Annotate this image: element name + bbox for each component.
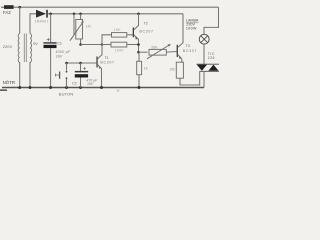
pot wiper feed — [73, 14, 75, 35]
wire: lamp to triac — [203, 44, 205, 64]
svg-text:T2: T2 — [144, 22, 148, 26]
fuse FA — [4, 5, 14, 9]
wire: 1K top lead — [138, 52, 140, 61]
svg-text:220V: 220V — [3, 44, 13, 49]
node: primary bottom — [18, 86, 21, 89]
node: button bottom — [65, 86, 68, 89]
node: R2/T2 emitter junction — [137, 43, 140, 46]
svg-text:BC307: BC307 — [100, 61, 114, 65]
svg-text:BC307: BC307 — [139, 30, 153, 34]
capacitor C2 — [80, 63, 82, 71]
resistor R3 1K body — [137, 61, 142, 74]
wire: pot bottom to resistor ladder — [81, 44, 102, 46]
capacitor C1 plates — [43, 42, 56, 43]
node: 1K bottom — [138, 86, 141, 89]
wire: base bus button/C2 to T1 — [67, 62, 97, 64]
node: ladder/T1 collector junction — [101, 43, 104, 46]
capacitor C2 plates — [75, 71, 88, 73]
transistor T2 BC307 — [133, 28, 134, 38]
56K wiper arrow — [147, 45, 170, 59]
svg-text:BC307: BC307 — [183, 49, 197, 53]
node: C1 tap — [49, 13, 52, 16]
wire: secondary top lead to diode rail — [30, 14, 36, 34]
triac TIC226 — [197, 63, 220, 65]
svg-text:100K: 100K — [115, 48, 125, 52]
transistor T1 BC307 — [96, 57, 97, 68]
scan speck mid bottom — [117, 89, 120, 92]
transformer secondary winding — [30, 34, 32, 63]
svg-text:16V: 16V — [87, 82, 94, 86]
svg-text:226: 226 — [208, 56, 215, 60]
resistor R2 100K body — [111, 42, 127, 47]
wire: top rail to right edge — [14, 6, 219, 8]
node: pot top tap — [79, 13, 82, 16]
svg-text:15K: 15K — [114, 28, 121, 32]
wire: R2 right lead — [127, 44, 139, 46]
node: C2 top — [79, 62, 82, 65]
svg-text:1N4001: 1N4001 — [35, 20, 49, 24]
pot bottom lead — [80, 39, 82, 45]
node: 56K/1K junction — [137, 51, 140, 54]
capacitor C1 top lead — [50, 14, 52, 42]
wire: right edge down — [204, 7, 219, 34]
transformer TR primary winding — [18, 34, 20, 63]
wire: transformer primary top lead — [19, 7, 21, 33]
wire: ladder left riser — [102, 35, 112, 45]
capacitor C2 plus sign — [83, 67, 86, 70]
transistor T3 BC307 — [177, 45, 178, 57]
wire: R1 right lead to T2 base — [127, 34, 133, 36]
wire: DC rail after diode — [48, 13, 183, 15]
wire: 56K right lead to T3 base — [166, 51, 176, 54]
wire: 150 bottom to triac gate — [180, 71, 200, 85]
wire: primary bottom lead — [19, 62, 21, 88]
wire: R2 left lead — [102, 44, 111, 46]
wire: 1K bottom lead — [138, 75, 140, 88]
wire: top phase rail — [1, 6, 4, 8]
svg-text:16V: 16V — [56, 54, 63, 58]
resistor R1 15K body — [112, 33, 127, 38]
pot wiper arrow — [70, 22, 83, 41]
node: button top — [65, 62, 68, 65]
svg-text:56K: 56K — [151, 45, 158, 49]
svg-text:C2: C2 — [72, 82, 77, 86]
svg-text:1K: 1K — [144, 67, 149, 71]
node: C2 bottom — [79, 86, 82, 89]
wire: C2 bottom lead — [80, 78, 82, 88]
diode D1 1N4001 — [36, 10, 46, 18]
svg-text:9V: 9V — [33, 42, 38, 46]
node: secondary bottom — [29, 86, 32, 89]
node: T1 emitter bottom — [100, 86, 103, 89]
capacitor C1 plus sign — [47, 38, 50, 41]
wire: secondary bottom lead — [29, 62, 31, 88]
node: C1 bottom — [49, 86, 52, 89]
svg-text:NÖTR: NÖTR — [3, 80, 15, 85]
trimpot 56K body — [149, 49, 166, 55]
scan speck bottom left — [0, 89, 7, 91]
svg-text:BUTON: BUTON — [59, 92, 74, 97]
wire: bottom neutral rail — [2, 87, 204, 89]
svg-text:1000 μF: 1000 μF — [55, 50, 71, 54]
wire: rail corner down to T3 collector — [182, 14, 184, 43]
node: pot wiper tap — [73, 13, 76, 16]
svg-text:FAZ: FAZ — [3, 10, 11, 15]
node: pot bottom junction — [79, 43, 82, 46]
svg-text:C1: C1 — [57, 41, 62, 45]
svg-text:100W: 100W — [186, 27, 197, 31]
svg-text:150: 150 — [169, 68, 175, 72]
svg-text:1M: 1M — [86, 24, 91, 28]
node: junction top of transformer primary — [18, 6, 21, 9]
node: T2 collector tap — [137, 13, 140, 16]
wire: 56K left lead — [139, 51, 148, 53]
potentiometer RP body — [76, 20, 83, 40]
svg-text:T3: T3 — [186, 44, 190, 48]
wire: C1 bottom lead — [50, 48, 52, 87]
pot top lead — [80, 14, 82, 20]
resistor R4 150 body — [176, 62, 183, 78]
svg-text:T1: T1 — [105, 56, 109, 60]
wire: triac to bottom rail — [203, 71, 205, 87]
lamp LAMBA — [199, 34, 209, 44]
button BUTON — [66, 63, 68, 71]
transformer core — [23, 34, 25, 63]
